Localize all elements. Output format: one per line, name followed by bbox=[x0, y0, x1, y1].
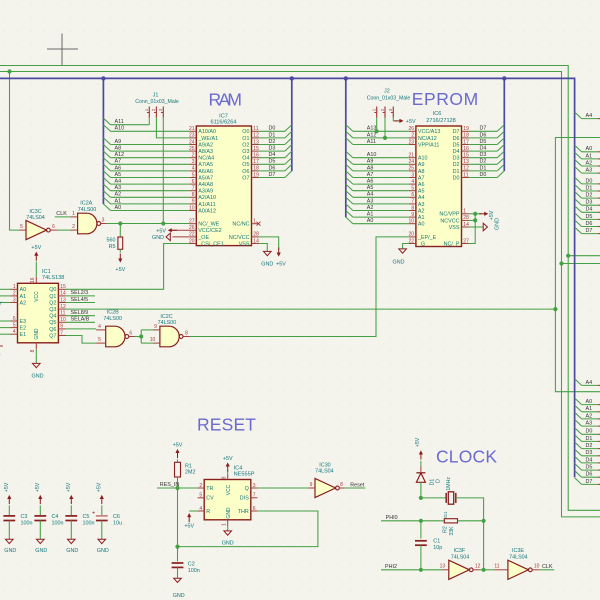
svg-text:VCC: VCC bbox=[226, 484, 232, 495]
connector J1 pin 2 bbox=[155, 107, 157, 118]
svg-text:Q: Q bbox=[245, 486, 249, 492]
svg-text:D1: D1 bbox=[586, 436, 593, 442]
wire D5 right column bbox=[582, 469, 598, 471]
svg-text:D3: D3 bbox=[269, 146, 276, 152]
svg-text:A1: A1 bbox=[586, 153, 593, 159]
ic IC7 pin 14 VSS bbox=[252, 243, 259, 245]
wire D5 right column bbox=[582, 218, 598, 220]
svg-text:NCVCC: NCVCC bbox=[440, 218, 459, 224]
wire IC2A output to RAM pin 27 bbox=[106, 223, 189, 225]
node junction NC/VPP bbox=[473, 212, 477, 216]
ic IC7 pin 22 _OE bbox=[189, 236, 196, 238]
power +5V above IC1 bbox=[35, 262, 37, 277]
wire A0 bbox=[111, 210, 190, 212]
node junction net1 bbox=[566, 254, 570, 258]
svg-text:A12: A12 bbox=[367, 132, 377, 138]
svg-text:RAM: RAM bbox=[209, 89, 243, 109]
bus entry D1 right column bbox=[575, 184, 582, 191]
svg-text:5: 5 bbox=[199, 493, 202, 499]
ic IC6 pin 3 A7 bbox=[409, 177, 416, 179]
ic IC1 pin 4 E1 bbox=[11, 333, 18, 335]
svg-text:D7: D7 bbox=[453, 129, 460, 135]
node junction J2 pin1 bbox=[375, 129, 379, 133]
bus entry A12 bbox=[103, 151, 110, 158]
ic IC7 pin 27 NC/_WE bbox=[189, 223, 196, 225]
wire A13 EPROM bbox=[353, 130, 409, 132]
bus entry A1 right column bbox=[575, 152, 582, 159]
svg-text:A9/A2: A9/A2 bbox=[198, 142, 213, 148]
ic IC1 pin 10 Q5 bbox=[58, 321, 65, 323]
svg-text:12: 12 bbox=[463, 166, 469, 172]
ic IC7 pin 18 O6 bbox=[252, 170, 259, 172]
bus entry D4 right column bbox=[575, 456, 582, 463]
ic IC6 pin 23 VPP/A11 bbox=[409, 144, 416, 146]
svg-text:9: 9 bbox=[154, 324, 157, 330]
svg-text:12: 12 bbox=[475, 564, 481, 570]
wire J1 pin2 to RAM pin23 bbox=[156, 118, 189, 138]
svg-text:IC4: IC4 bbox=[234, 465, 243, 471]
ic IC6 pin 16 D4 bbox=[462, 150, 469, 152]
bus entry A10 EPROM bbox=[346, 151, 353, 158]
svg-text:D4: D4 bbox=[480, 146, 487, 152]
svg-text:33K: 33K bbox=[449, 526, 455, 536]
ic IC2A pin 3 output bbox=[101, 223, 107, 225]
svg-text:6: 6 bbox=[253, 506, 256, 512]
svg-text:CV: CV bbox=[206, 496, 214, 502]
bus entry D0 RAM bbox=[285, 125, 292, 132]
svg-text:+5V: +5V bbox=[4, 482, 10, 492]
bus entry D3 right column bbox=[575, 449, 582, 456]
pin tip D1 bbox=[598, 440, 600, 442]
bus entry A6 EPROM bbox=[346, 178, 353, 185]
capacitor C3 100n bbox=[3, 515, 15, 517]
svg-text:A7: A7 bbox=[367, 172, 374, 178]
svg-text:A7: A7 bbox=[418, 175, 425, 181]
svg-text:+5V: +5V bbox=[223, 456, 233, 462]
svg-text:2: 2 bbox=[199, 483, 202, 489]
pin tip A1 bbox=[598, 411, 600, 413]
svg-text:O5: O5 bbox=[242, 162, 249, 168]
svg-text:3: 3 bbox=[253, 483, 256, 489]
svg-text:RESET: RESET bbox=[197, 415, 256, 435]
svg-text:2M2: 2M2 bbox=[185, 470, 196, 476]
svg-text:23: 23 bbox=[409, 139, 415, 145]
bus entry A8 EPROM bbox=[346, 164, 353, 171]
svg-text:6116/6264: 6116/6264 bbox=[210, 120, 236, 126]
svg-text:A11: A11 bbox=[115, 119, 124, 125]
svg-text:A1: A1 bbox=[367, 212, 374, 218]
ic IC4 pin 5 CV bbox=[198, 497, 205, 499]
svg-text:_WE/A1: _WE/A1 bbox=[197, 136, 218, 142]
ic IC6 pin 14 VSS bbox=[462, 226, 469, 228]
svg-text:15: 15 bbox=[60, 284, 66, 290]
svg-text:10u: 10u bbox=[113, 520, 122, 526]
ic IC4 NE555P body bbox=[204, 480, 251, 520]
ic IC1 pin 6 E3 bbox=[11, 320, 18, 322]
wire IC2B out to IC2C inputs bbox=[135, 336, 142, 338]
ic IC7 pin 26 VCC/CE2 bbox=[189, 229, 196, 231]
svg-text:100n: 100n bbox=[188, 568, 200, 574]
bus entry A0 EPROM bbox=[346, 217, 353, 224]
wire J2 pin2 to A12 bbox=[384, 118, 386, 138]
wire IC1 E3 to left edge bbox=[0, 320, 11, 322]
wire J1 pin3 down to select net bbox=[162, 118, 164, 224]
svg-text:2: 2 bbox=[72, 224, 75, 230]
svg-text:D1: D1 bbox=[586, 185, 593, 191]
wire A12 EPROM bbox=[353, 137, 409, 139]
ic IC7 pin 4 A6/A6 bbox=[189, 170, 196, 172]
svg-text:16: 16 bbox=[30, 277, 36, 283]
ic IC6 pin 22 _G bbox=[409, 243, 416, 245]
node junction R2 right bbox=[482, 519, 486, 523]
wire D2 right column bbox=[582, 448, 598, 450]
svg-text:9: 9 bbox=[411, 212, 414, 218]
svg-text:A0: A0 bbox=[367, 218, 374, 224]
svg-text:1: 1 bbox=[221, 523, 227, 526]
ic IC1 pin 9 Q6 bbox=[58, 328, 65, 330]
wire D3 right column bbox=[582, 204, 598, 206]
power GND below C4 bbox=[37, 539, 45, 543]
ic IC3F pin 12 output bbox=[473, 569, 480, 571]
svg-text:THR: THR bbox=[238, 509, 249, 515]
bus drop RAM left bbox=[102, 78, 104, 204]
wire PHI2 bbox=[381, 569, 443, 571]
bus drop RAM right bbox=[291, 78, 293, 171]
wire J2 pin3 to +5V bbox=[393, 118, 397, 121]
ic IC7 pin 16 O4 bbox=[252, 157, 259, 159]
wire SEL net vertical right column bbox=[555, 138, 600, 392]
bus entry A3 EPROM bbox=[346, 197, 353, 204]
gate IC2B 74LS00 nand bbox=[106, 326, 125, 347]
svg-text:13: 13 bbox=[463, 159, 469, 165]
bus entry D7 right column bbox=[575, 227, 582, 234]
ic IC7 pin 5 A5/A7 bbox=[189, 177, 196, 179]
bus entry A0 bbox=[103, 204, 110, 211]
svg-text:D2: D2 bbox=[480, 159, 487, 165]
svg-text:A0: A0 bbox=[20, 287, 27, 293]
svg-text:Reset: Reset bbox=[350, 482, 365, 488]
power GND below C6 bbox=[98, 539, 106, 543]
svg-text:A2: A2 bbox=[367, 205, 374, 211]
svg-text:5: 5 bbox=[20, 224, 23, 230]
wire NCVCC down to NC/_P bbox=[469, 214, 476, 244]
ic IC7 pin 1 NC/NC bbox=[252, 223, 259, 225]
ic IC6 pin 15 D3 bbox=[462, 157, 469, 159]
svg-text:11: 11 bbox=[463, 172, 468, 178]
svg-text:IC2C: IC2C bbox=[160, 314, 172, 320]
ic IC30 pin 8 output bbox=[339, 487, 344, 489]
svg-text:A10: A10 bbox=[115, 126, 125, 132]
ic IC6 pin 17 D5 bbox=[462, 144, 469, 146]
svg-text:NC/A4: NC/A4 bbox=[198, 156, 214, 162]
svg-text:26: 26 bbox=[409, 126, 415, 132]
pin tip D5 bbox=[598, 469, 600, 471]
ic IC1 pin 14 Q1 bbox=[58, 295, 65, 297]
svg-text:TR: TR bbox=[206, 486, 213, 492]
wire A1 right column bbox=[582, 411, 598, 413]
ic IC4 pin 6 THR bbox=[251, 510, 258, 512]
svg-text:C3: C3 bbox=[21, 514, 28, 520]
svg-text:9: 9 bbox=[60, 324, 63, 330]
ic IC3E pin 11 input bbox=[494, 569, 508, 571]
wire A2 bbox=[111, 196, 190, 198]
svg-text:D0: D0 bbox=[480, 172, 487, 178]
wire D0 right column bbox=[582, 183, 598, 185]
power +5V at IC4 pin4 bbox=[187, 513, 191, 522]
wire D2 right column bbox=[582, 197, 598, 199]
power GND below IC1 bbox=[35, 349, 37, 363]
ic IC1 pin 15 Q0 bbox=[58, 288, 65, 290]
svg-text:D6: D6 bbox=[480, 132, 487, 138]
wire A7 EPROM bbox=[353, 177, 409, 179]
svg-text:GND: GND bbox=[226, 507, 232, 519]
wire D0 EPROM bbox=[469, 177, 498, 179]
wire A3 EPROM bbox=[353, 203, 409, 205]
svg-text:2: 2 bbox=[192, 153, 195, 159]
left edge fragment red bbox=[0, 345, 3, 347]
pin tip D3 bbox=[598, 204, 600, 206]
wire A7 bbox=[111, 163, 190, 165]
svg-text:C6: C6 bbox=[113, 514, 120, 520]
ic IC7 pin 9 A1/A11 bbox=[189, 203, 196, 205]
node junction IC3F out bbox=[482, 568, 486, 572]
svg-text:D0: D0 bbox=[453, 175, 460, 181]
bus entry A13 EPROM bbox=[346, 125, 353, 132]
wire RAM pin28 to +5V bbox=[259, 237, 279, 250]
svg-text:1: 1 bbox=[253, 219, 256, 225]
svg-text:A10: A10 bbox=[418, 156, 428, 162]
svg-text:IC1: IC1 bbox=[42, 269, 51, 275]
svg-text:A4: A4 bbox=[418, 195, 425, 201]
svg-text:7: 7 bbox=[253, 493, 256, 499]
node junction J2 pin2 bbox=[383, 136, 387, 140]
wire SEL4/5 bbox=[66, 302, 96, 304]
svg-text:R2: R2 bbox=[443, 526, 449, 533]
wire A3 bbox=[111, 190, 190, 192]
wire D4 right column bbox=[582, 211, 598, 213]
wire down to IC3F out bbox=[483, 521, 485, 570]
gate IC3F 74LS04 inverter bbox=[449, 560, 470, 579]
svg-text:_OE: _OE bbox=[197, 235, 209, 241]
svg-text:12: 12 bbox=[253, 133, 259, 139]
power GND at RAM pin 22 bbox=[173, 236, 190, 238]
bus entry A7 EPROM bbox=[346, 171, 353, 178]
bus entry A9 bbox=[103, 138, 110, 145]
svg-text:28: 28 bbox=[253, 232, 259, 238]
svg-text:VCC/A13: VCC/A13 bbox=[418, 129, 440, 135]
svg-text:D: D bbox=[436, 479, 442, 483]
node junction PHI0 D1 bbox=[419, 519, 423, 523]
svg-text:100n: 100n bbox=[21, 520, 33, 526]
svg-text:A9: A9 bbox=[115, 139, 122, 145]
svg-text:IC3C: IC3C bbox=[29, 209, 41, 215]
resistor R2 33K bbox=[444, 519, 457, 523]
node junction crystal left bbox=[419, 496, 423, 500]
wire A1 bbox=[111, 203, 190, 205]
wire A12 bbox=[111, 157, 190, 159]
ic IC4 pin 3 Q bbox=[251, 487, 258, 489]
wire D2 RAM bbox=[259, 144, 285, 146]
svg-text:J2: J2 bbox=[384, 89, 390, 95]
svg-text:6: 6 bbox=[129, 330, 132, 336]
ic IC7 pin 24 A9/A2 bbox=[189, 144, 196, 146]
svg-text:E1: E1 bbox=[20, 332, 27, 338]
svg-text:A9: A9 bbox=[418, 162, 425, 168]
svg-text:100n: 100n bbox=[83, 520, 95, 526]
wire net1 branch to right edge bbox=[568, 255, 600, 257]
svg-text:RES_IN: RES_IN bbox=[160, 482, 180, 488]
ic IC3F pin 13 input bbox=[443, 569, 449, 571]
svg-text:16: 16 bbox=[463, 146, 469, 152]
gate IC2C 74LS00 nand bbox=[160, 326, 179, 347]
pin tip A3 bbox=[598, 172, 600, 174]
svg-text:11: 11 bbox=[253, 126, 258, 132]
wire Reset out bbox=[345, 487, 366, 489]
svg-text:13: 13 bbox=[440, 564, 446, 570]
svg-text:7: 7 bbox=[60, 330, 63, 336]
bus entry D4 RAM bbox=[285, 151, 292, 158]
svg-text:D1: D1 bbox=[453, 169, 460, 175]
ic IC6 2716/27128 body bbox=[416, 126, 462, 247]
svg-text:6: 6 bbox=[52, 224, 55, 230]
bus entry D7 RAM bbox=[285, 171, 292, 178]
svg-text:A7: A7 bbox=[115, 159, 122, 165]
wire D0 right column bbox=[582, 433, 598, 435]
ic IC7 pin 3 A7/A5 bbox=[189, 163, 196, 165]
svg-text:11: 11 bbox=[60, 311, 65, 317]
svg-text:E2: E2 bbox=[20, 326, 27, 332]
svg-text:D2: D2 bbox=[269, 139, 276, 145]
bus entry A5 EPROM bbox=[346, 184, 353, 191]
svg-text:A6: A6 bbox=[418, 182, 425, 188]
svg-text:D7: D7 bbox=[269, 172, 276, 178]
ic IC7 pin 12 O1 bbox=[252, 137, 259, 139]
svg-text:C1: C1 bbox=[433, 538, 440, 544]
bus entry D2 right column bbox=[575, 442, 582, 449]
wire IC1 A0 to left edge bbox=[0, 288, 11, 290]
svg-text:A9: A9 bbox=[367, 159, 374, 165]
wire net2 top horizontal bbox=[0, 72, 562, 264]
ic IC7 pin 6 A4/A8 bbox=[189, 183, 196, 185]
wire A9 EPROM bbox=[353, 163, 409, 165]
svg-text:+5V: +5V bbox=[66, 482, 72, 492]
connector J2 pin 2 bbox=[384, 107, 386, 118]
wire IC1 A1 to left edge bbox=[0, 295, 11, 297]
wire IC6 _G to GND bbox=[403, 244, 409, 249]
bus entry A10 bbox=[103, 125, 110, 132]
wire D7 RAM bbox=[259, 177, 285, 179]
ic IC6 pin 11 D0 bbox=[462, 177, 469, 179]
svg-text:A3: A3 bbox=[367, 198, 374, 204]
pin tip D4 bbox=[598, 211, 600, 213]
ic IC7 pin 20 _CS/_CE1 bbox=[189, 243, 196, 245]
wire D4 RAM bbox=[259, 157, 285, 159]
svg-text:A2: A2 bbox=[20, 300, 27, 306]
svg-text:A0: A0 bbox=[418, 222, 425, 228]
wire J2 pin1 to A13 bbox=[376, 118, 378, 132]
svg-text:560: 560 bbox=[107, 238, 116, 244]
wire D1 right column bbox=[582, 190, 598, 192]
pin tip D6 bbox=[598, 476, 600, 478]
ic IC7 pin 7 A3/A9 bbox=[189, 190, 196, 192]
ic IC7 pin 21 A10/A0 bbox=[189, 130, 196, 132]
svg-text:21: 21 bbox=[189, 126, 195, 132]
bus entry D1 EPROM bbox=[497, 164, 504, 171]
pin tip D4 bbox=[598, 462, 600, 464]
ic IC6 pin 10 A0 bbox=[409, 223, 416, 225]
wire SEL8/9 bbox=[66, 315, 96, 317]
svg-text:Q0: Q0 bbox=[49, 287, 56, 293]
svg-text:A1: A1 bbox=[586, 406, 593, 412]
bus entry A0 right column bbox=[575, 145, 582, 152]
svg-text:20: 20 bbox=[189, 238, 195, 244]
svg-text:74LS138: 74LS138 bbox=[42, 275, 64, 281]
svg-text:A2: A2 bbox=[586, 160, 593, 166]
ic IC6 pin 28 NCVCC bbox=[462, 219, 469, 221]
svg-text:7: 7 bbox=[192, 186, 195, 192]
ic IC7 pin 19 O7 bbox=[252, 177, 259, 179]
ic IC2C pin 10 input bbox=[153, 342, 160, 344]
svg-text:IC30: IC30 bbox=[319, 462, 330, 468]
svg-text:74LS00: 74LS00 bbox=[103, 316, 122, 322]
svg-text:J1: J1 bbox=[153, 92, 159, 98]
svg-text:D3: D3 bbox=[453, 156, 460, 162]
wire IC3F out bbox=[480, 569, 494, 571]
bus drop EPROM right bbox=[503, 78, 505, 171]
svg-text:3: 3 bbox=[102, 217, 105, 223]
svg-text:A6: A6 bbox=[367, 179, 374, 185]
bus entry A3 right column bbox=[575, 419, 582, 426]
svg-text:IC7: IC7 bbox=[219, 113, 228, 119]
svg-text:13: 13 bbox=[60, 297, 66, 303]
wire A5 EPROM bbox=[353, 190, 409, 192]
svg-text:A10: A10 bbox=[367, 152, 377, 158]
power +5V at J2 pin3 bbox=[394, 119, 403, 123]
svg-text:A3: A3 bbox=[418, 202, 425, 208]
svg-text:14: 14 bbox=[60, 291, 66, 297]
bus entry D6 right column bbox=[575, 220, 582, 227]
svg-text:+5V: +5V bbox=[406, 119, 416, 125]
wire IC6 NC/VPP to +5V bbox=[469, 213, 483, 215]
svg-text:8: 8 bbox=[411, 205, 414, 211]
resistor R5 560 bbox=[119, 224, 121, 238]
wire A2 right column bbox=[582, 165, 598, 167]
bus entry A1 bbox=[103, 197, 110, 204]
svg-text:A1: A1 bbox=[20, 294, 27, 300]
svg-text:21: 21 bbox=[409, 153, 415, 159]
svg-text:IC2B: IC2B bbox=[107, 310, 119, 316]
crystal G1 bbox=[445, 493, 447, 503]
svg-text:D5: D5 bbox=[480, 139, 487, 145]
svg-text:14: 14 bbox=[463, 222, 469, 228]
ic IC6 pin 12 D1 bbox=[462, 170, 469, 172]
svg-text:Q7: Q7 bbox=[49, 333, 56, 339]
wire D3 EPROM bbox=[469, 157, 498, 159]
wire A4 right column bbox=[582, 118, 598, 120]
svg-text:A6/A6: A6/A6 bbox=[198, 169, 213, 175]
svg-text:D6: D6 bbox=[586, 221, 593, 227]
ic IC6 pin 20 _EP/_E bbox=[409, 236, 416, 238]
svg-text:3: 3 bbox=[411, 172, 414, 178]
svg-text:5: 5 bbox=[13, 322, 16, 328]
svg-text:A5: A5 bbox=[367, 185, 374, 191]
svg-text:D0: D0 bbox=[269, 126, 276, 132]
svg-text:3: 3 bbox=[192, 159, 195, 165]
wire A10 EPROM bbox=[353, 157, 409, 159]
svg-text:A6: A6 bbox=[115, 165, 122, 171]
bus entry A4 right column bbox=[575, 379, 582, 386]
svg-text:A1/A11: A1/A11 bbox=[198, 202, 215, 208]
